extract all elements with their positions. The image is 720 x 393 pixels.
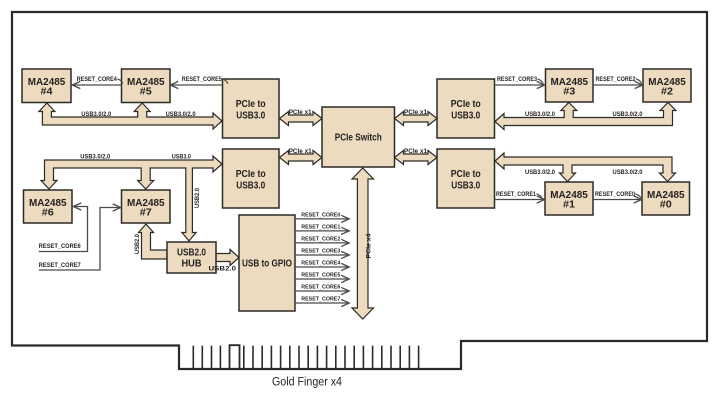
svg-text:USB3.0: USB3.0 — [236, 180, 265, 192]
svg-text:USB3.0/2.0: USB3.0/2.0 — [166, 111, 196, 118]
svg-text:#5: #5 — [140, 85, 152, 97]
svg-text:PCIe x4: PCIe x4 — [366, 233, 373, 258]
svg-text:RESET_CORE1: RESET_CORE1 — [301, 224, 341, 230]
svg-text:USB3.0/2.0: USB3.0/2.0 — [525, 169, 555, 176]
svg-text:RESET_CORE2: RESET_CORE2 — [301, 236, 341, 242]
svg-text:USB3.0/2.0: USB3.0/2.0 — [613, 111, 643, 118]
svg-text:RESET_CORE1: RESET_CORE1 — [496, 191, 536, 198]
svg-text:PCIe to: PCIe to — [236, 98, 266, 110]
svg-text:#6: #6 — [42, 206, 54, 218]
svg-text:RESET_CORE3: RESET_CORE3 — [497, 76, 537, 83]
svg-text:PCIe x1: PCIe x1 — [404, 148, 427, 155]
svg-text:PCIe x1: PCIe x1 — [289, 148, 312, 155]
svg-text:RESET_CORE5: RESET_CORE5 — [182, 76, 222, 83]
svg-text:PCIe x1: PCIe x1 — [404, 109, 427, 116]
svg-text:Gold Finger x4: Gold Finger x4 — [272, 377, 343, 389]
svg-text:#3: #3 — [563, 85, 575, 97]
svg-text:USB2.0: USB2.0 — [194, 188, 201, 208]
svg-text:#2: #2 — [661, 85, 673, 97]
svg-text:PCIe x1: PCIe x1 — [289, 109, 312, 116]
svg-text:RESET_CORE2: RESET_CORE2 — [596, 76, 636, 83]
svg-text:RESET_CORE4: RESET_CORE4 — [301, 260, 341, 266]
svg-text:PCIe to: PCIe to — [451, 168, 481, 180]
svg-text:#0: #0 — [660, 198, 672, 210]
svg-text:#7: #7 — [140, 206, 152, 218]
svg-text:RESET_CORE0: RESET_CORE0 — [595, 191, 635, 198]
svg-text:RESET_CORE3: RESET_CORE3 — [301, 248, 341, 254]
svg-text:#4: #4 — [41, 85, 53, 97]
svg-text:USB3.0/2.0: USB3.0/2.0 — [525, 111, 555, 118]
svg-text:USB3.0: USB3.0 — [451, 110, 480, 122]
svg-text:USB3.0: USB3.0 — [236, 110, 265, 122]
svg-text:RESET_CORE4: RESET_CORE4 — [77, 76, 117, 83]
svg-text:USB2.0: USB2.0 — [134, 234, 141, 254]
svg-text:USB3.0/2.0: USB3.0/2.0 — [81, 111, 111, 118]
svg-text:RESET_CORE7: RESET_CORE7 — [39, 262, 81, 269]
svg-text:HUB: HUB — [182, 258, 202, 270]
svg-text:PCIe Switch: PCIe Switch — [335, 132, 382, 144]
svg-text:PCIe to: PCIe to — [236, 168, 266, 180]
svg-text:#1: #1 — [563, 198, 575, 210]
svg-text:USB3.0: USB3.0 — [451, 180, 480, 192]
svg-text:USB3.0: USB3.0 — [172, 153, 191, 160]
svg-text:RESET_CORE5: RESET_CORE5 — [301, 272, 341, 278]
svg-text:RESET_CORE7: RESET_CORE7 — [301, 296, 341, 302]
svg-text:RESET_CORE6: RESET_CORE6 — [301, 284, 341, 290]
svg-text:PCIe to: PCIe to — [451, 98, 481, 110]
svg-text:USB2.0: USB2.0 — [209, 266, 237, 273]
svg-text:USB to GPIO: USB to GPIO — [242, 258, 292, 270]
svg-text:USB3.0/2.0: USB3.0/2.0 — [613, 169, 643, 176]
svg-text:RESET_CORE0: RESET_CORE0 — [301, 212, 341, 218]
svg-text:USB3.0/2.0: USB3.0/2.0 — [80, 153, 110, 160]
svg-text:RESET_CORE6: RESET_CORE6 — [39, 243, 81, 250]
